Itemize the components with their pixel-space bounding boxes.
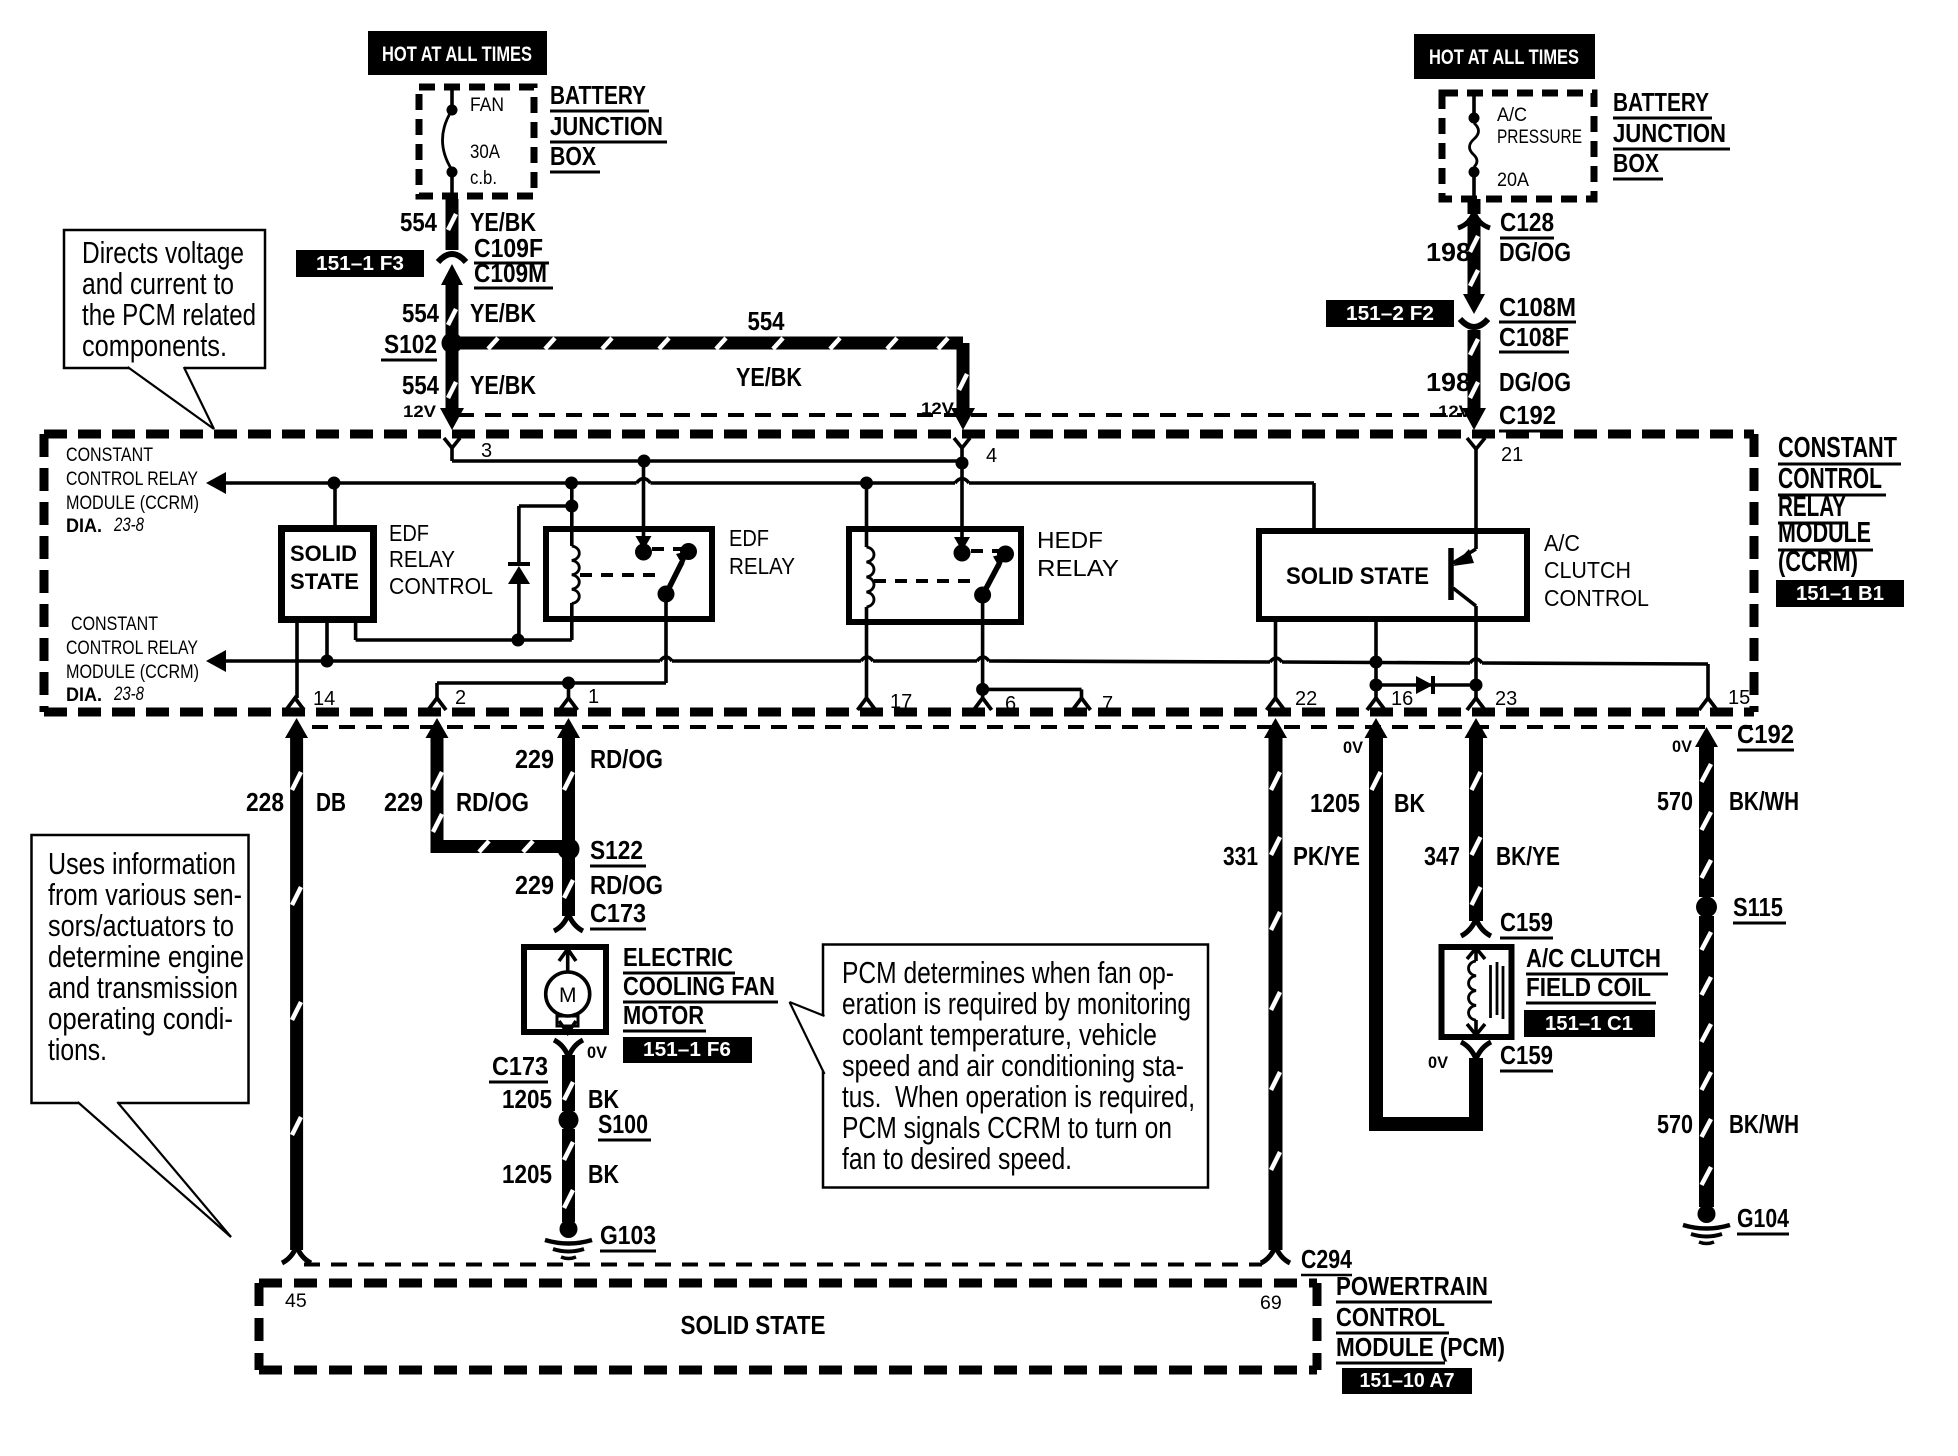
svg-text:SOLID: SOLID	[290, 541, 357, 566]
A/C box stub to pin 22	[1274, 619, 1278, 698]
svg-text:151–1 C1: 151–1 C1	[1545, 1013, 1633, 1035]
svg-text:C192: C192	[1499, 400, 1556, 430]
svg-text:RD/OG: RD/OG	[590, 870, 663, 900]
wire 228 DB pin 14 to PCM pin 45	[282, 718, 311, 1263]
svg-text:RD/OG: RD/OG	[590, 744, 663, 774]
svg-text:4: 4	[986, 445, 997, 467]
pin 14	[286, 688, 335, 710]
wire 554 YE/BK from breaker to C109F	[448, 199, 456, 250]
EDF relay coil	[565, 483, 579, 640]
svg-text:PK/YE: PK/YE	[1293, 841, 1360, 871]
svg-text:G104: G104	[1737, 1203, 1789, 1233]
svg-text:69: 69	[1260, 1292, 1282, 1314]
wire 554 YE/BK horizontal run to pin 4	[459, 306, 963, 392]
svg-text:tions.: tions.	[48, 1032, 107, 1067]
svg-text:BK: BK	[588, 1159, 619, 1189]
svg-text:DB: DB	[316, 787, 346, 817]
svg-text:operating condi-: operating condi-	[48, 1001, 233, 1036]
svg-text:PCM determines when fan op-: PCM determines when fan op-	[842, 955, 1174, 990]
label 151-10 A7	[1342, 1368, 1472, 1394]
svg-text:1205: 1205	[502, 1159, 552, 1189]
svg-text:7: 7	[1102, 693, 1113, 715]
svg-text:DG/OG: DG/OG	[1499, 367, 1571, 397]
svg-text:FIELD COIL: FIELD COIL	[1526, 972, 1651, 1002]
electric cooling fan motor M1	[524, 947, 606, 1033]
pin 6	[974, 693, 1017, 715]
label 229 RD/OG left	[384, 787, 529, 817]
wire 1205 BK C173 to S100	[502, 1055, 619, 1114]
svg-text:YE/BK: YE/BK	[470, 370, 536, 400]
label 570 BK/WH lower	[1657, 1109, 1799, 1139]
svg-text:23-8: 23-8	[113, 683, 144, 705]
svg-text:570: 570	[1657, 1109, 1693, 1139]
svg-text:RD/OG: RD/OG	[456, 787, 529, 817]
svg-text:198: 198	[1426, 367, 1471, 397]
svg-text:JUNCTION: JUNCTION	[550, 111, 663, 141]
svg-text:(CCRM): (CCRM)	[1778, 546, 1858, 578]
connector C128 symbol	[1458, 199, 1554, 238]
svg-text:MODULE (PCM): MODULE (PCM)	[1336, 1332, 1505, 1362]
label 554 YE/BK (top)	[400, 207, 536, 237]
diode D1 EDF coil clamp	[508, 506, 572, 640]
svg-text:MODULE: MODULE	[1778, 517, 1871, 549]
svg-text:A/C: A/C	[1544, 530, 1580, 556]
svg-text:CLUTCH: CLUTCH	[1544, 557, 1631, 583]
A/C clutch solid state box	[1259, 531, 1527, 619]
A/C CLUTCH CONTROL label	[1544, 530, 1649, 611]
svg-text:HEDF: HEDF	[1037, 527, 1103, 553]
svg-text:22: 22	[1295, 688, 1317, 710]
svg-text:554: 554	[402, 370, 439, 400]
svg-text:347: 347	[1424, 841, 1460, 871]
svg-text:CONSTANT: CONSTANT	[71, 613, 158, 635]
splice S115	[1696, 892, 1786, 923]
CONSTANT CONTROL RELAY MODULE label (right)	[1778, 432, 1901, 578]
wire 198 DG/OG lower	[1426, 330, 1571, 430]
label 151-2 F2	[1326, 300, 1454, 327]
connector C159 top	[1461, 907, 1553, 938]
svg-text:C128: C128	[1500, 207, 1554, 237]
pin 23	[1467, 688, 1517, 710]
svg-text:198: 198	[1426, 237, 1471, 267]
label 228 DB	[246, 787, 346, 817]
pin 4	[954, 438, 997, 467]
svg-text:BATTERY: BATTERY	[550, 80, 646, 110]
svg-text:0V: 0V	[1428, 1053, 1449, 1072]
svg-text:fan to desired speed.: fan to desired speed.	[842, 1141, 1072, 1176]
svg-text:17: 17	[890, 691, 912, 713]
svg-text:HOT AT ALL TIMES: HOT AT ALL TIMES	[382, 43, 532, 66]
wire 554 YE/BK from C109M to S102	[448, 298, 456, 340]
svg-text:C173: C173	[492, 1051, 548, 1081]
svg-text:S122: S122	[590, 835, 643, 865]
callout PCM determines	[790, 945, 1209, 1188]
svg-text:C159: C159	[1500, 1040, 1553, 1070]
wire 229 RD/OG S122 to C173	[515, 857, 663, 916]
svg-text:and current to: and current to	[82, 266, 234, 301]
svg-text:EDF: EDF	[389, 520, 429, 546]
callout Uses information	[32, 835, 249, 1237]
svg-text:FAN: FAN	[470, 94, 504, 116]
svg-text:BK/WH: BK/WH	[1729, 786, 1799, 816]
svg-text:eration is required by monitor: eration is required by monitoring	[842, 986, 1191, 1021]
svg-text:1205: 1205	[502, 1084, 552, 1114]
svg-text:C173: C173	[590, 898, 646, 928]
svg-text:sors/actuators to: sors/actuators to	[48, 908, 234, 943]
HOT AT ALL TIMES label (right)	[1414, 34, 1595, 79]
svg-text:CONTROL: CONTROL	[1336, 1302, 1445, 1332]
ground G103	[545, 1220, 656, 1259]
svg-text:and transmission: and transmission	[48, 970, 238, 1005]
battery junction box (left)	[419, 87, 534, 196]
svg-text:ELECTRIC: ELECTRIC	[623, 942, 733, 972]
svg-text:BOX: BOX	[550, 141, 597, 171]
label C294	[1301, 1244, 1352, 1275]
EDF relay box	[546, 529, 712, 619]
svg-text:JUNCTION: JUNCTION	[1613, 118, 1726, 148]
pin 22	[1267, 688, 1318, 710]
svg-text:21: 21	[1501, 444, 1523, 466]
svg-text:CONSTANT: CONSTANT	[66, 444, 153, 466]
svg-text:Directs voltage: Directs voltage	[82, 235, 244, 270]
HOT AT ALL TIMES label (left)	[368, 31, 547, 75]
wire 570 BK/WH S115 to G104	[1702, 916, 1712, 1207]
svg-text:A/C: A/C	[1497, 104, 1527, 126]
svg-text:RELAY: RELAY	[1037, 555, 1119, 581]
transistor emitter wire to pin 23	[1474, 622, 1478, 698]
svg-text:229: 229	[515, 870, 554, 900]
svg-text:S102: S102	[384, 329, 437, 359]
wire 229 RD/OG pin 2 to S122	[426, 718, 563, 852]
svg-text:CONTROL: CONTROL	[389, 573, 493, 599]
EDF switch output wire to pins 1 and 2	[437, 594, 666, 698]
wire 1205 BK pin 16 to A/C field coil	[1343, 718, 1476, 1124]
svg-text:0V: 0V	[1672, 737, 1693, 756]
svg-text:554: 554	[748, 306, 785, 336]
svg-text:20A: 20A	[1497, 169, 1529, 191]
label 229 RD/OG pin1	[515, 744, 663, 774]
svg-text:0V: 0V	[587, 1043, 608, 1062]
A/C box stub to pin 16	[1374, 619, 1378, 698]
svg-text:228: 228	[246, 787, 284, 817]
svg-text:G103: G103	[600, 1220, 656, 1250]
connector C108M/C108F symbol	[1460, 292, 1576, 352]
connector C159 bottom	[1428, 1040, 1553, 1072]
wire 1205 BK S100 to G103	[502, 1129, 619, 1222]
svg-text:554: 554	[400, 207, 437, 237]
svg-text:YE/BK: YE/BK	[470, 298, 536, 328]
circuit breaker FAN 30A c.b.	[443, 84, 505, 199]
svg-text:C159: C159	[1500, 907, 1553, 937]
svg-text:23-8: 23-8	[113, 514, 144, 536]
battery junction box (right)	[1442, 93, 1594, 199]
CCRM text block 1	[66, 444, 199, 537]
svg-text:CONTROL RELAY: CONTROL RELAY	[66, 637, 198, 659]
EDF RELAY CONTROL label	[389, 520, 493, 599]
svg-text:coolant temperature, vehicle: coolant temperature, vehicle	[842, 1017, 1157, 1052]
svg-text:MODULE (CCRM): MODULE (CCRM)	[66, 492, 199, 514]
label 151-1 F6	[623, 1037, 752, 1063]
solid state box stubs	[297, 483, 356, 698]
svg-text:SOLID STATE: SOLID STATE	[681, 1310, 826, 1340]
svg-text:C108M: C108M	[1499, 292, 1576, 322]
C192 connector plane dashed line (bottom of CCRM)	[312, 725, 1752, 729]
wire 554 YE/BK from S102 down to CCRM pin 3	[402, 350, 536, 430]
EDF relay control output line	[356, 634, 572, 647]
PCM pin 69	[1260, 1292, 1282, 1314]
diode D2 between pin 16 and pin 23	[1370, 676, 1483, 694]
HEDF switch output wire to pins 6 and 7	[976, 595, 1081, 698]
label 151-1 F3	[296, 250, 424, 277]
svg-text:C108F: C108F	[1499, 322, 1569, 352]
svg-text:DIA.: DIA.	[66, 684, 102, 706]
pin 2	[428, 687, 466, 710]
svg-text:c.b.: c.b.	[470, 167, 497, 189]
HEDF relay coil	[867, 483, 875, 698]
svg-text:CONTROL: CONTROL	[1544, 585, 1649, 611]
splice S102	[381, 329, 463, 360]
label C192 (top)	[1499, 400, 1556, 431]
EDF RELAY label	[729, 525, 795, 579]
wire 570 BK/WH pin 15 to S115	[1695, 727, 1718, 897]
label 347 BK/YE	[1424, 841, 1560, 871]
label 151-1 C1	[1524, 1010, 1655, 1037]
12V connector plane dashed line (top)	[458, 413, 1462, 417]
svg-text:23: 23	[1495, 688, 1517, 710]
svg-text:0V: 0V	[1343, 738, 1364, 757]
svg-text:PRESSURE: PRESSURE	[1497, 126, 1582, 148]
svg-text:RELAY: RELAY	[729, 553, 795, 579]
C294 connector plane dashed line	[304, 1263, 1262, 1267]
label 331 PK/YE	[1223, 841, 1360, 871]
svg-text:CONTROL RELAY: CONTROL RELAY	[66, 468, 198, 490]
wire 331 PK/YE pin 22 to PCM pin 69	[1261, 718, 1290, 1263]
svg-text:from various sen-: from various sen-	[48, 877, 242, 912]
pin 7	[1073, 693, 1114, 715]
CCRM module dashed box	[44, 434, 1754, 712]
svg-text:1: 1	[588, 686, 599, 708]
splice S122	[558, 835, 647, 866]
wire line 2 CCRM control bus with arrow	[206, 472, 1314, 531]
svg-text:CONSTANT: CONSTANT	[1778, 432, 1897, 464]
svg-text:speed and air conditioning sta: speed and air conditioning sta-	[842, 1048, 1184, 1083]
pin 15	[1699, 687, 1750, 710]
svg-text:DG/OG: DG/OG	[1499, 237, 1571, 267]
svg-text:229: 229	[515, 744, 554, 774]
label 554 YE/BK (mid)	[402, 298, 536, 328]
svg-text:229: 229	[384, 787, 423, 817]
EDF relay switch	[580, 461, 697, 603]
svg-text:BK/WH: BK/WH	[1729, 1109, 1799, 1139]
svg-text:RELAY: RELAY	[389, 546, 455, 572]
svg-text:15: 15	[1728, 687, 1750, 709]
solid state box (EDF driver)	[282, 529, 374, 620]
svg-text:12V: 12V	[403, 402, 437, 421]
svg-text:BK/YE: BK/YE	[1496, 841, 1560, 871]
callout Directs voltage	[64, 230, 265, 429]
wire line 3 lower CCRM bus with arrow	[206, 650, 1708, 698]
svg-text:PCM signals CCRM to turn on: PCM signals CCRM to turn on	[842, 1110, 1172, 1145]
svg-text:12V: 12V	[1438, 402, 1472, 421]
label C109M	[474, 258, 553, 288]
POWERTRAIN CONTROL MODULE PCM label	[1336, 1271, 1505, 1363]
svg-text:16: 16	[1391, 688, 1413, 710]
svg-text:S115: S115	[1733, 892, 1783, 922]
pin 1	[560, 686, 600, 710]
wire drop to CCRM pin 4	[921, 343, 975, 430]
BATTERY JUNCTION BOX label (left)	[550, 80, 667, 172]
transistor Q1 A/C clutch driver	[1451, 461, 1476, 622]
svg-text:6: 6	[1005, 693, 1016, 715]
svg-text:EDF: EDF	[729, 525, 769, 551]
svg-text:3: 3	[481, 440, 492, 462]
svg-text:C109M: C109M	[474, 258, 547, 288]
svg-text:MODULE (CCRM): MODULE (CCRM)	[66, 661, 199, 683]
svg-text:tus. When operation is requir: tus. When operation is required,	[842, 1079, 1195, 1114]
svg-text:SOLID STATE: SOLID STATE	[1286, 563, 1429, 590]
label 0V C192 bottom right	[1672, 719, 1794, 756]
A/C clutch field coil	[1442, 947, 1512, 1037]
ground G104	[1683, 1203, 1789, 1244]
pin 17	[858, 691, 913, 713]
CCRM text block 2	[66, 613, 199, 706]
svg-text:BOX: BOX	[1613, 148, 1660, 178]
wire 198 DG/OG upper	[1426, 218, 1571, 295]
label 1205 BK right	[1310, 788, 1425, 818]
svg-text:30A: 30A	[470, 141, 500, 163]
svg-text:C294: C294	[1301, 1244, 1352, 1274]
pin 3	[444, 438, 492, 462]
svg-text:BK: BK	[1394, 788, 1425, 818]
svg-text:components.: components.	[82, 328, 227, 363]
svg-text:151–1 B1: 151–1 B1	[1796, 583, 1884, 605]
svg-text:M: M	[559, 984, 577, 1007]
wire 347 BK/YE pin 23 to C159	[1465, 718, 1488, 921]
svg-text:570: 570	[1657, 786, 1693, 816]
splice S100	[559, 1109, 652, 1140]
label C109F	[474, 233, 549, 263]
svg-text:POWERTRAIN: POWERTRAIN	[1336, 1271, 1488, 1301]
svg-text:YE/BK: YE/BK	[736, 362, 802, 392]
ELECTRIC COOLING FAN MOTOR label	[623, 942, 778, 1031]
fuse A/C PRESSURE 20A	[1469, 90, 1583, 202]
svg-text:151–1 F3: 151–1 F3	[316, 253, 404, 275]
pin 16	[1367, 688, 1413, 710]
HEDF RELAY label	[1037, 527, 1119, 581]
HEDF relay box	[849, 529, 1021, 622]
A/C CLUTCH FIELD COIL label	[1526, 943, 1668, 1003]
svg-text:151–1 F6: 151–1 F6	[643, 1039, 731, 1061]
BATTERY JUNCTION BOX label (right)	[1613, 87, 1730, 179]
svg-text:MOTOR: MOTOR	[623, 1000, 704, 1030]
wire 229 RD/OG pin 1 to S122	[557, 718, 580, 842]
svg-text:Uses information: Uses information	[48, 846, 236, 881]
PCM pin 45	[285, 1290, 307, 1312]
svg-text:STATE: STATE	[290, 569, 359, 594]
svg-text:DIA.: DIA.	[66, 515, 102, 537]
svg-text:1205: 1205	[1310, 788, 1360, 818]
svg-text:45: 45	[285, 1290, 307, 1312]
svg-text:determine engine: determine engine	[48, 939, 244, 974]
svg-text:COOLING FAN: COOLING FAN	[623, 971, 775, 1001]
pin 21	[1467, 438, 1523, 466]
PCM dashed box	[259, 1283, 1317, 1370]
svg-text:C192: C192	[1737, 719, 1794, 749]
svg-text:554: 554	[402, 298, 439, 328]
PCM SOLID STATE label	[681, 1310, 826, 1340]
label 151-1 B1	[1776, 580, 1904, 607]
wire line 1 pin3 to pin4 power bus	[452, 455, 969, 470]
svg-text:the PCM related: the PCM related	[82, 297, 256, 332]
connector C109F/C109M symbol	[438, 254, 466, 300]
label 570 BK/WH upper	[1657, 786, 1799, 816]
svg-text:HOT AT ALL TIMES: HOT AT ALL TIMES	[1429, 46, 1579, 69]
svg-text:151–2 F2: 151–2 F2	[1346, 303, 1434, 325]
HEDF relay switch	[874, 463, 1014, 604]
svg-text:2: 2	[455, 687, 466, 709]
svg-text:A/C CLUTCH: A/C CLUTCH	[1526, 943, 1661, 973]
svg-text:BATTERY: BATTERY	[1613, 87, 1709, 117]
connector C173 top	[554, 898, 646, 931]
svg-text:S100: S100	[598, 1109, 648, 1139]
svg-text:151–10 A7: 151–10 A7	[1360, 1370, 1455, 1392]
svg-text:14: 14	[313, 688, 335, 710]
svg-text:331: 331	[1223, 841, 1258, 871]
connector C173 bottom	[489, 1040, 608, 1082]
